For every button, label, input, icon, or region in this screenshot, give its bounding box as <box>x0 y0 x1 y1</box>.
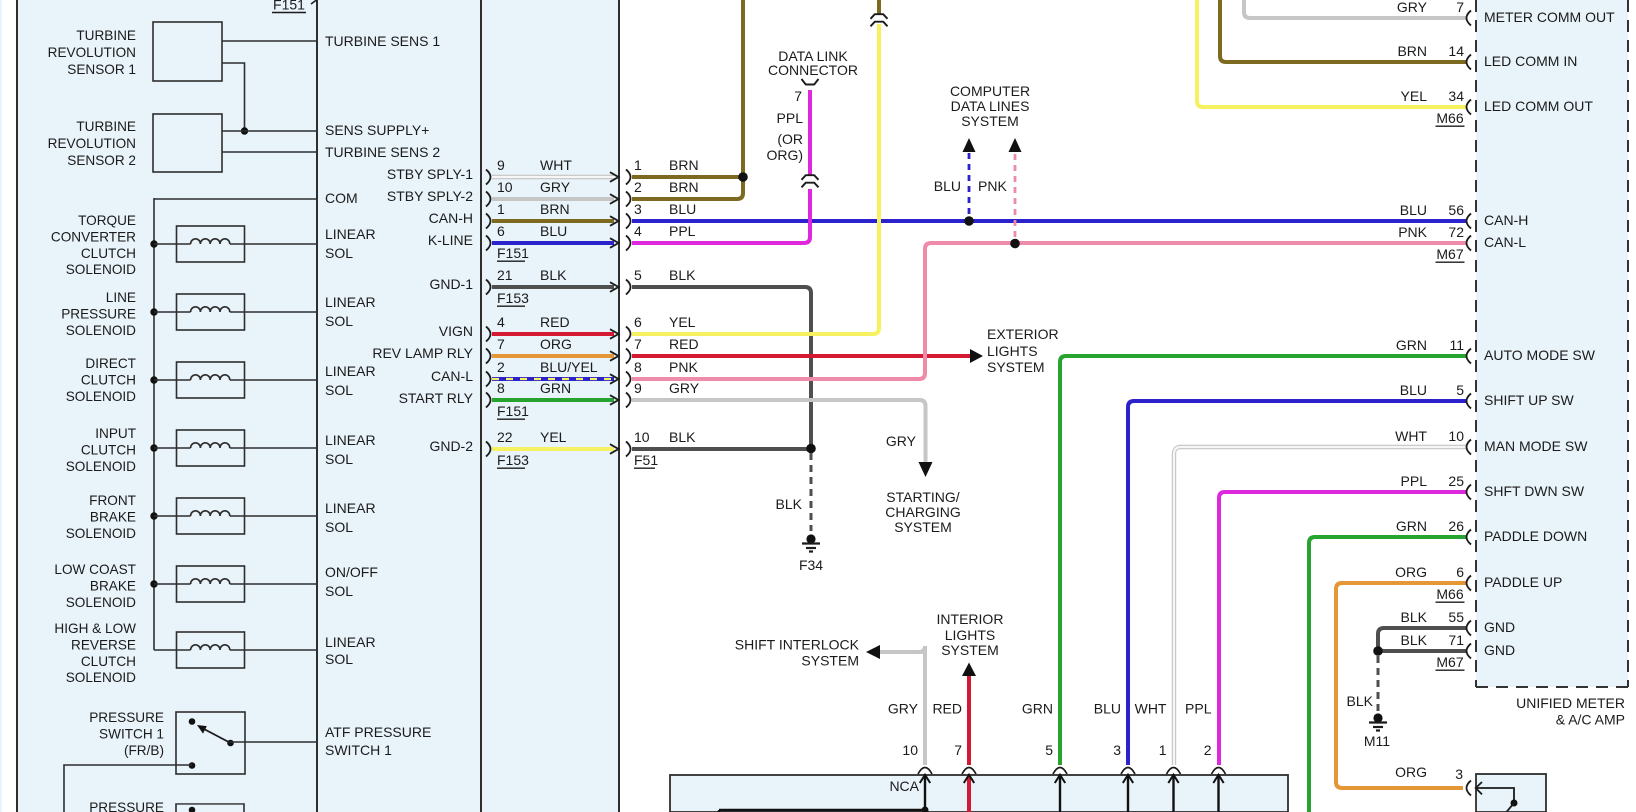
svg-text:SYSTEM: SYSTEM <box>801 653 859 669</box>
svg-text:(FR/B): (FR/B) <box>124 743 164 758</box>
svg-text:GND-2: GND-2 <box>429 438 473 454</box>
svg-text:10: 10 <box>1448 428 1464 444</box>
svg-text:6: 6 <box>634 314 642 330</box>
svg-text:PRESSURE: PRESSURE <box>61 306 136 321</box>
svg-text:SHFT DWN SW: SHFT DWN SW <box>1484 483 1585 499</box>
svg-text:CAN-H: CAN-H <box>429 210 473 226</box>
svg-text:GRY: GRY <box>888 701 919 717</box>
svg-text:LED COMM OUT: LED COMM OUT <box>1484 98 1593 114</box>
svg-text:BLK: BLK <box>669 267 696 283</box>
svg-text:ORG: ORG <box>540 336 572 352</box>
svg-text:REVOLUTION: REVOLUTION <box>48 45 136 60</box>
svg-text:22: 22 <box>497 429 513 445</box>
svg-text:BLU: BLU <box>669 201 696 217</box>
svg-text:COM: COM <box>325 190 358 206</box>
svg-text:TURBINE: TURBINE <box>76 28 136 43</box>
svg-text:BLU: BLU <box>540 223 567 239</box>
svg-text:SENS SUPPLY+: SENS SUPPLY+ <box>325 122 429 138</box>
svg-text:BRN: BRN <box>1397 43 1427 59</box>
svg-text:1: 1 <box>634 157 642 173</box>
svg-text:INPUT: INPUT <box>95 426 136 441</box>
svg-text:7: 7 <box>634 336 642 352</box>
svg-text:SOL: SOL <box>325 651 353 667</box>
svg-text:CAN-H: CAN-H <box>1484 212 1528 228</box>
svg-text:SOLENOID: SOLENOID <box>66 262 136 277</box>
svg-text:PADDLE UP: PADDLE UP <box>1484 574 1562 590</box>
svg-text:WHT: WHT <box>1135 701 1167 717</box>
svg-text:LIGHTS: LIGHTS <box>945 627 996 643</box>
svg-text:SYSTEM: SYSTEM <box>894 519 952 535</box>
svg-text:3: 3 <box>634 201 642 217</box>
svg-text:AUTO MODE SW: AUTO MODE SW <box>1484 347 1596 363</box>
svg-text:BLK: BLK <box>540 267 567 283</box>
svg-text:F51: F51 <box>634 452 658 468</box>
svg-text:F151: F151 <box>273 0 305 13</box>
svg-text:PPL: PPL <box>669 223 696 239</box>
svg-text:7: 7 <box>497 336 505 352</box>
svg-text:LINE: LINE <box>106 290 136 305</box>
svg-text:COMPUTER: COMPUTER <box>950 83 1030 99</box>
svg-text:CLUTCH: CLUTCH <box>81 654 136 669</box>
svg-text:CAN-L: CAN-L <box>1484 234 1526 250</box>
svg-text:SWITCH 1: SWITCH 1 <box>325 742 392 758</box>
svg-text:CONVERTER: CONVERTER <box>51 229 136 244</box>
svg-text:7: 7 <box>954 742 962 758</box>
svg-text:ORG): ORG) <box>766 147 803 163</box>
svg-text:SOLENOID: SOLENOID <box>66 595 136 610</box>
svg-text:SENSOR 1: SENSOR 1 <box>67 62 136 77</box>
svg-text:ON/OFF: ON/OFF <box>325 564 378 580</box>
svg-text:34: 34 <box>1448 88 1464 104</box>
svg-text:GND-1: GND-1 <box>429 276 473 292</box>
svg-text:LINEAR: LINEAR <box>325 432 376 448</box>
svg-text:STBY SPLY-2: STBY SPLY-2 <box>387 188 473 204</box>
svg-text:F34: F34 <box>799 557 823 573</box>
svg-text:STARTING/: STARTING/ <box>886 489 959 505</box>
svg-text:YEL: YEL <box>540 429 567 445</box>
svg-text:METER COMM OUT: METER COMM OUT <box>1484 9 1615 25</box>
svg-text:BLU: BLU <box>1094 701 1121 717</box>
svg-text:SOLENOID: SOLENOID <box>66 323 136 338</box>
svg-text:PPL: PPL <box>777 110 804 126</box>
svg-text:ATF PRESSURE: ATF PRESSURE <box>325 724 431 740</box>
svg-text:K-LINE: K-LINE <box>428 232 473 248</box>
svg-text:F151: F151 <box>497 403 529 419</box>
svg-text:2: 2 <box>497 359 505 375</box>
svg-text:BLK: BLK <box>669 429 696 445</box>
svg-text:71: 71 <box>1448 632 1464 648</box>
svg-text:SOL: SOL <box>325 451 353 467</box>
svg-text:REVOLUTION: REVOLUTION <box>48 136 136 151</box>
svg-text:PRESSURE: PRESSURE <box>89 800 164 812</box>
svg-text:CONNECTOR: CONNECTOR <box>768 62 858 78</box>
svg-text:CAN-L: CAN-L <box>431 368 473 384</box>
svg-text:SYSTEM: SYSTEM <box>987 359 1045 375</box>
svg-text:WHT: WHT <box>1395 428 1427 444</box>
svg-text:PNK: PNK <box>1398 224 1427 240</box>
svg-text:SOLENOID: SOLENOID <box>66 389 136 404</box>
svg-text:UNIFIED METER: UNIFIED METER <box>1516 695 1625 711</box>
svg-text:8: 8 <box>497 380 505 396</box>
svg-text:BLK: BLK <box>1347 693 1374 709</box>
svg-text:LINEAR: LINEAR <box>325 294 376 310</box>
svg-text:72: 72 <box>1448 224 1464 240</box>
svg-text:TURBINE SENS 2: TURBINE SENS 2 <box>325 144 440 160</box>
svg-text:GRY: GRY <box>1397 0 1428 15</box>
svg-text:GND: GND <box>1484 619 1515 635</box>
svg-text:M67: M67 <box>1436 654 1463 670</box>
svg-text:LED COMM IN: LED COMM IN <box>1484 53 1577 69</box>
svg-text:GND: GND <box>1484 642 1515 658</box>
svg-text:STBY SPLY-1: STBY SPLY-1 <box>387 166 473 182</box>
svg-text:HIGH & LOW: HIGH & LOW <box>54 621 136 636</box>
svg-text:(OR: (OR <box>777 131 803 147</box>
svg-text:BRN: BRN <box>669 157 699 173</box>
svg-text:M66: M66 <box>1436 110 1463 126</box>
svg-text:5: 5 <box>634 267 642 283</box>
svg-text:TURBINE: TURBINE <box>76 119 136 134</box>
svg-text:BLU: BLU <box>1400 382 1427 398</box>
svg-text:REVERSE: REVERSE <box>71 637 136 652</box>
svg-text:RED: RED <box>540 314 570 330</box>
svg-text:2: 2 <box>1204 742 1212 758</box>
svg-text:1: 1 <box>497 201 505 217</box>
svg-text:TORQUE: TORQUE <box>78 213 136 228</box>
svg-text:DATA LINES: DATA LINES <box>951 98 1030 114</box>
svg-text:MAN MODE SW: MAN MODE SW <box>1484 438 1588 454</box>
svg-text:1: 1 <box>1159 742 1167 758</box>
svg-text:BLU/YEL: BLU/YEL <box>540 359 598 375</box>
svg-text:EXTERIOR: EXTERIOR <box>987 326 1059 342</box>
svg-text:3: 3 <box>1113 742 1121 758</box>
svg-text:RED: RED <box>669 336 699 352</box>
svg-text:3: 3 <box>1455 766 1463 782</box>
svg-text:GRY: GRY <box>669 380 700 396</box>
svg-text:GRN: GRN <box>1022 701 1053 717</box>
svg-text:SOL: SOL <box>325 583 353 599</box>
svg-text:26: 26 <box>1448 518 1464 534</box>
svg-text:2: 2 <box>634 179 642 195</box>
svg-text:9: 9 <box>634 380 642 396</box>
svg-text:9: 9 <box>497 157 505 173</box>
svg-text:10: 10 <box>902 742 918 758</box>
svg-text:SOL: SOL <box>325 245 353 261</box>
svg-text:BLK: BLK <box>1401 609 1428 625</box>
svg-text:4: 4 <box>497 314 505 330</box>
svg-text:VIGN: VIGN <box>439 323 473 339</box>
svg-text:START RLY: START RLY <box>399 390 474 406</box>
svg-text:6: 6 <box>497 223 505 239</box>
svg-text:M67: M67 <box>1436 246 1463 262</box>
svg-text:RED: RED <box>932 701 962 717</box>
svg-text:CLUTCH: CLUTCH <box>81 246 136 261</box>
svg-text:BRN: BRN <box>669 179 699 195</box>
svg-text:SHIFT INTERLOCK: SHIFT INTERLOCK <box>735 637 860 653</box>
svg-text:LINEAR: LINEAR <box>325 500 376 516</box>
svg-text:BLU: BLU <box>1400 202 1427 218</box>
svg-text:SOL: SOL <box>325 382 353 398</box>
svg-text:SOL: SOL <box>325 519 353 535</box>
svg-text:GRN: GRN <box>540 380 571 396</box>
svg-text:LINEAR: LINEAR <box>325 226 376 242</box>
svg-text:GRN: GRN <box>1396 337 1427 353</box>
svg-text:PADDLE DOWN: PADDLE DOWN <box>1484 528 1587 544</box>
svg-text:NCA: NCA <box>889 778 919 794</box>
svg-text:ORG: ORG <box>1395 764 1427 780</box>
svg-text:BRN: BRN <box>540 201 570 217</box>
svg-text:FRONT: FRONT <box>89 493 136 508</box>
svg-text:TURBINE SENS 1: TURBINE SENS 1 <box>325 33 440 49</box>
svg-text:SHIFT UP SW: SHIFT UP SW <box>1484 392 1575 408</box>
svg-text:BRAKE: BRAKE <box>90 509 136 524</box>
svg-text:55: 55 <box>1448 609 1464 625</box>
svg-text:REV LAMP RLY: REV LAMP RLY <box>372 345 473 361</box>
svg-text:SYSTEM: SYSTEM <box>961 113 1019 129</box>
svg-text:PRESSURE: PRESSURE <box>89 710 164 725</box>
svg-text:56: 56 <box>1448 202 1464 218</box>
svg-text:& A/C AMP: & A/C AMP <box>1556 712 1625 728</box>
svg-text:10: 10 <box>497 179 513 195</box>
svg-text:PNK: PNK <box>669 359 698 375</box>
svg-text:SOLENOID: SOLENOID <box>66 670 136 685</box>
svg-text:PPL: PPL <box>1401 473 1428 489</box>
svg-text:BLU: BLU <box>934 178 961 194</box>
svg-text:SOLENOID: SOLENOID <box>66 526 136 541</box>
svg-text:CLUTCH: CLUTCH <box>81 442 136 457</box>
svg-text:10: 10 <box>634 429 650 445</box>
svg-text:BLK: BLK <box>776 496 803 512</box>
svg-text:YEL: YEL <box>669 314 696 330</box>
svg-text:25: 25 <box>1448 473 1464 489</box>
svg-text:5: 5 <box>1045 742 1053 758</box>
svg-text:M11: M11 <box>1364 733 1390 749</box>
svg-text:PNK: PNK <box>978 178 1007 194</box>
svg-text:LIGHTS: LIGHTS <box>987 343 1038 359</box>
svg-text:SOLENOID: SOLENOID <box>66 459 136 474</box>
svg-text:PPL: PPL <box>1185 701 1212 717</box>
svg-text:14: 14 <box>1448 43 1464 59</box>
svg-text:F153: F153 <box>497 452 529 468</box>
svg-text:7: 7 <box>1456 0 1464 15</box>
svg-text:CLUTCH: CLUTCH <box>81 372 136 387</box>
svg-text:DIRECT: DIRECT <box>85 356 136 371</box>
svg-text:LINEAR: LINEAR <box>325 363 376 379</box>
svg-text:F151: F151 <box>497 245 529 261</box>
svg-text:YEL: YEL <box>1401 88 1428 104</box>
svg-text:BLK: BLK <box>1401 632 1428 648</box>
svg-text:LINEAR: LINEAR <box>325 634 376 650</box>
svg-text:SYSTEM: SYSTEM <box>941 642 999 658</box>
svg-text:BRAKE: BRAKE <box>90 578 136 593</box>
svg-text:GRY: GRY <box>886 433 917 449</box>
svg-text:SWITCH 1: SWITCH 1 <box>99 726 164 741</box>
svg-text:INTERIOR: INTERIOR <box>937 611 1004 627</box>
svg-text:21: 21 <box>497 267 513 283</box>
svg-text:11: 11 <box>1449 337 1464 353</box>
svg-text:M66: M66 <box>1436 586 1463 602</box>
svg-text:GRN: GRN <box>1396 518 1427 534</box>
svg-text:SOL: SOL <box>325 313 353 329</box>
svg-text:SENSOR 2: SENSOR 2 <box>67 153 136 168</box>
svg-text:5: 5 <box>1456 382 1464 398</box>
svg-text:4: 4 <box>634 223 642 239</box>
svg-text:WHT: WHT <box>540 157 572 173</box>
svg-text:LOW COAST: LOW COAST <box>54 562 136 577</box>
svg-text:8: 8 <box>634 359 642 375</box>
svg-text:ORG: ORG <box>1395 564 1427 580</box>
svg-text:7: 7 <box>794 88 802 104</box>
svg-text:F153: F153 <box>497 290 529 306</box>
svg-text:6: 6 <box>1456 564 1464 580</box>
svg-text:GRY: GRY <box>540 179 571 195</box>
svg-text:CHARGING: CHARGING <box>885 504 960 520</box>
